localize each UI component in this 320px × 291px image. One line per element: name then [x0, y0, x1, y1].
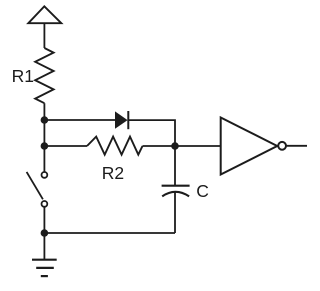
wire node E to ground	[43, 233, 45, 260]
wire R2 to node D	[143, 145, 176, 147]
switch SW1 bottom contact	[42, 201, 48, 207]
resistor R1	[35, 48, 53, 103]
node D junction dot	[171, 142, 179, 150]
wire node A to node B	[43, 120, 45, 146]
switch SW1 lever	[27, 172, 43, 199]
inverter U1	[221, 118, 278, 175]
wire switch to node E	[43, 207, 45, 233]
wire node B to R2	[44, 145, 87, 147]
power supply VCC symbol	[28, 6, 61, 23]
bottom rail wire	[44, 232, 175, 234]
svg-text:R2: R2	[102, 163, 124, 183]
wire VCC to R1	[43, 23, 45, 48]
node B junction dot	[41, 142, 49, 150]
wire node B to switch contact	[43, 146, 45, 172]
wire node D to inverter input	[175, 145, 221, 147]
node E junction dot	[41, 229, 49, 237]
ground symbol	[32, 260, 57, 276]
capacitor C top plate	[162, 185, 190, 187]
inverter U1 output bubble	[278, 142, 286, 150]
wire capacitor to bottom rail	[174, 192, 176, 233]
wire diode cathode to node D	[128, 120, 175, 146]
diode D1	[115, 111, 128, 128]
capacitor C curved plate	[162, 192, 189, 197]
switch SW1 top contact	[42, 172, 48, 178]
output wire	[287, 145, 307, 147]
node A junction dot	[41, 116, 49, 124]
wire node D to capacitor	[174, 146, 176, 185]
wire node A to diode anode	[44, 119, 115, 121]
svg-text:R1: R1	[12, 66, 34, 86]
svg-text:C: C	[196, 181, 209, 201]
resistor R2	[87, 137, 143, 155]
wire R1 to node A	[43, 103, 45, 120]
